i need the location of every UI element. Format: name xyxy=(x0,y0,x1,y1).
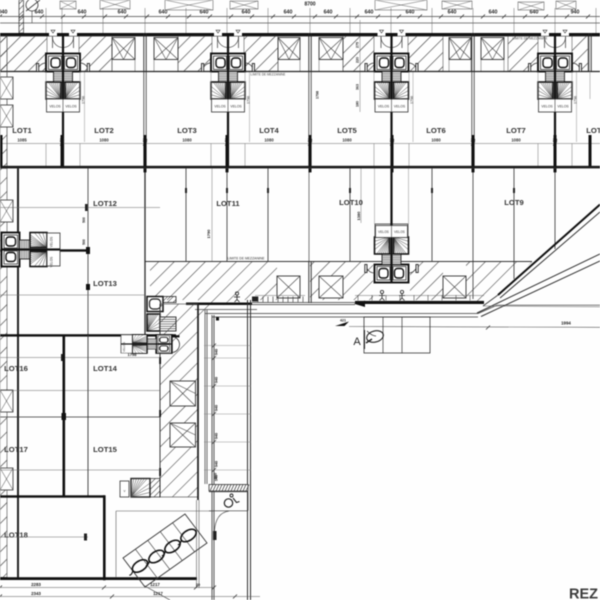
lower core door arcs xyxy=(172,335,180,352)
svg-text:421: 421 xyxy=(340,319,346,323)
lot17 mezzanine line xyxy=(0,469,160,471)
bottom block verticals xyxy=(63,335,89,497)
inner facade windows xyxy=(277,276,466,298)
svg-text:LOT13: LOT13 xyxy=(93,279,117,288)
lot dimension line xyxy=(0,142,600,146)
lot17/18 divider wall xyxy=(0,495,106,580)
A-row boxes xyxy=(364,317,430,353)
svg-text:VELOS: VELOS xyxy=(394,230,405,234)
640 dimension labels xyxy=(0,10,579,16)
core 2 lower wall xyxy=(227,112,229,167)
svg-text:VELOS: VELOS xyxy=(541,105,553,109)
svg-text:LIMITE DE MEZZANINE: LIMITE DE MEZZANINE xyxy=(251,73,286,77)
svg-text:640: 640 xyxy=(242,10,251,16)
svg-text:640: 640 xyxy=(406,10,415,16)
svg-text:LOT7: LOT7 xyxy=(506,126,525,135)
left edge windows mid xyxy=(0,200,13,490)
svg-text:1080: 1080 xyxy=(342,138,352,143)
LOT9 label xyxy=(504,198,523,207)
stair core top 2 xyxy=(202,30,255,112)
svg-text:363: 363 xyxy=(356,84,360,90)
LOT12 label xyxy=(93,199,117,208)
inner facade mid wall xyxy=(309,262,311,303)
svg-text:LOT11: LOT11 xyxy=(216,199,240,208)
svg-text:860: 860 xyxy=(214,534,218,540)
parking shrubs xyxy=(126,527,199,578)
corridor wall dark segments xyxy=(159,357,161,476)
svg-text:LOT4: LOT4 xyxy=(259,126,279,135)
LOT13 label xyxy=(93,279,117,288)
svg-text:1085: 1085 xyxy=(17,138,27,143)
svg-text:1080: 1080 xyxy=(99,138,109,143)
driveway lines xyxy=(195,305,600,317)
main facade wall top xyxy=(0,33,600,36)
svg-text:640: 640 xyxy=(118,10,127,16)
svg-text:940: 940 xyxy=(0,10,7,16)
1798 dim core 2 xyxy=(247,72,251,142)
svg-text:LOT10: LOT10 xyxy=(339,198,363,207)
1798 dim lot5 xyxy=(316,91,320,99)
lot grid verticals top row xyxy=(46,72,590,168)
svg-text:1798: 1798 xyxy=(410,96,414,104)
LOT1 label xyxy=(12,126,32,135)
lot boundary wall bars xyxy=(0,135,592,167)
LOT15 label xyxy=(93,445,117,454)
svg-text:LIMITE DE MEZZANINE: LIMITE DE MEZZANINE xyxy=(227,257,265,261)
stair core top 1 xyxy=(37,30,90,112)
svg-text:640: 640 xyxy=(159,10,168,16)
wall lot14 top xyxy=(0,334,176,336)
svg-text:8700: 8700 xyxy=(304,2,315,8)
svg-text:LOT2: LOT2 xyxy=(94,126,113,135)
LOT3 label xyxy=(177,126,196,135)
svg-text:VELOS: VELOS xyxy=(557,105,569,109)
svg-text:2343: 2343 xyxy=(31,591,41,596)
svg-text:1798: 1798 xyxy=(128,352,138,357)
section arrow 421 xyxy=(335,319,349,327)
svg-text:1798: 1798 xyxy=(574,96,578,104)
500 dim labels lot12 xyxy=(82,217,86,245)
small stair bottom xyxy=(120,479,160,498)
svg-text:LOT18: LOT18 xyxy=(4,531,28,540)
corner stair core xyxy=(147,297,176,332)
1798 dim core 4 xyxy=(574,72,578,142)
LOT10 label xyxy=(339,198,363,207)
top dimension line xyxy=(0,15,600,19)
bottom dim line 2 xyxy=(0,591,260,599)
svg-text:1798: 1798 xyxy=(247,96,251,104)
LOT7 label xyxy=(506,126,525,135)
860 dim labels xyxy=(214,473,218,540)
svg-text:1798: 1798 xyxy=(82,96,86,104)
lot16 mezzanine line xyxy=(0,390,160,392)
core side wall stubs xyxy=(46,144,572,167)
svg-text:940: 940 xyxy=(215,461,219,467)
svg-text:LOT5: LOT5 xyxy=(337,126,357,135)
stair core top 4 xyxy=(529,30,582,112)
left block verticals xyxy=(17,168,88,577)
svg-text:LOT9: LOT9 xyxy=(504,198,523,207)
lot13 mezzanine line xyxy=(0,294,145,296)
bottom wall xyxy=(0,577,197,580)
svg-text:860: 860 xyxy=(214,473,218,479)
svg-text:2283: 2283 xyxy=(31,582,41,587)
svg-text:640: 640 xyxy=(324,10,333,16)
core 4 lower wall xyxy=(554,112,556,167)
core 1 lower wall xyxy=(62,112,64,167)
leaf symbol xyxy=(365,329,384,344)
svg-text:180: 180 xyxy=(356,101,360,107)
ramp edge upper xyxy=(483,205,600,307)
lot12/13 divider wall xyxy=(0,247,90,290)
corridor band windows xyxy=(170,381,196,447)
svg-text:20: 20 xyxy=(196,583,200,587)
facade wall hatch segments xyxy=(0,36,600,71)
svg-text:VELOS: VELOS xyxy=(50,257,54,268)
curb curve xyxy=(213,511,229,540)
svg-text:LOT3: LOT3 xyxy=(177,126,196,135)
svg-text:LOT1: LOT1 xyxy=(12,126,32,135)
left edge hatch mid xyxy=(0,168,7,577)
facade band bottom line xyxy=(0,71,600,73)
LOT6 label xyxy=(426,126,445,135)
svg-text:640: 640 xyxy=(284,10,293,16)
hatched strip left xyxy=(19,0,24,33)
LOT14 label xyxy=(93,364,117,373)
section label A xyxy=(353,330,364,349)
svg-text:640: 640 xyxy=(489,10,498,16)
svg-text:640: 640 xyxy=(530,10,539,16)
svg-text:940: 940 xyxy=(215,349,219,355)
corner figure xyxy=(234,292,240,302)
dense facade band xyxy=(186,295,484,307)
1798 dim core 1 xyxy=(82,72,86,142)
lot11 vertical dim xyxy=(206,168,212,261)
angled parking stalls xyxy=(123,514,207,587)
svg-text:VELOS: VELOS xyxy=(122,342,126,352)
svg-text:640: 640 xyxy=(78,10,87,16)
svg-text:1080: 1080 xyxy=(511,138,521,143)
corridor dim ticks and labels xyxy=(204,344,251,482)
LOT17 label xyxy=(4,445,28,454)
svg-text:640: 640 xyxy=(365,10,374,16)
dimension line 1994 xyxy=(349,321,600,330)
crane circle symbol top-left xyxy=(26,0,40,23)
LOT18 label xyxy=(4,531,28,540)
stair core top 3 xyxy=(365,30,418,112)
lot10 vertical dim xyxy=(356,168,361,223)
svg-text:640: 640 xyxy=(200,10,209,16)
yard lines xyxy=(116,500,214,588)
dim extension verticals xyxy=(46,8,596,33)
grid tick blobs xyxy=(185,188,515,193)
limite de mezzanine label top xyxy=(251,37,548,77)
LOT5 label xyxy=(337,126,357,135)
svg-text:LOT12: LOT12 xyxy=(93,199,117,208)
walkway lines xyxy=(205,310,214,600)
corridor hatched wall band xyxy=(160,304,198,500)
svg-text:1217: 1217 xyxy=(153,591,163,596)
svg-text:VELOS: VELOS xyxy=(214,105,226,109)
core 3 lower wall xyxy=(390,112,392,167)
svg-text:1798: 1798 xyxy=(316,91,320,99)
lot14 dim line xyxy=(0,352,160,361)
svg-text:VELOS: VELOS xyxy=(378,230,389,234)
svg-text:LOT8: LOT8 xyxy=(586,126,600,135)
bottom dim line 1 xyxy=(0,582,216,590)
svg-text:REZ D: REZ D xyxy=(569,587,600,600)
svg-text:1080: 1080 xyxy=(182,138,192,143)
stair core inner (LOT9/10) xyxy=(375,224,409,283)
svg-text:1217: 1217 xyxy=(150,582,160,587)
limite de mezzanine line xyxy=(145,257,532,262)
svg-text:940: 940 xyxy=(215,433,219,439)
8700 label xyxy=(304,2,315,8)
inner core figures xyxy=(379,290,405,300)
svg-text:500: 500 xyxy=(82,239,86,245)
facade windows (crossed) xyxy=(112,38,504,72)
svg-text:1790: 1790 xyxy=(206,229,211,239)
left edge windows xyxy=(0,77,13,127)
svg-text:1994: 1994 xyxy=(561,321,571,326)
title REZ DE text xyxy=(569,587,600,600)
hatched strip xyxy=(209,485,249,492)
svg-text:VELOS: VELOS xyxy=(378,105,390,109)
svg-text:1380: 1380 xyxy=(356,211,361,221)
svg-text:LOT16: LOT16 xyxy=(4,364,28,373)
second main wall xyxy=(0,166,600,169)
outer boundary double line xyxy=(248,300,251,600)
facade mid walls xyxy=(144,33,591,72)
1798 dim core 3 xyxy=(410,72,414,142)
svg-text:VELOS: VELOS xyxy=(65,105,77,109)
svg-text:V: V xyxy=(123,489,125,493)
parking lane edge extension xyxy=(143,585,170,600)
svg-text:1080: 1080 xyxy=(431,138,441,143)
LOT16 label xyxy=(4,364,28,373)
left edge wall top row xyxy=(0,36,7,167)
svg-text:500: 500 xyxy=(82,217,86,223)
top edge vent symbols xyxy=(60,0,576,10)
svg-text:LOT15: LOT15 xyxy=(93,445,117,454)
svg-text:640: 640 xyxy=(35,10,44,16)
second row grid verticals xyxy=(144,168,557,335)
ramp edge lower xyxy=(477,254,600,317)
vertical dim chain x360 xyxy=(356,20,361,112)
svg-text:1080: 1080 xyxy=(264,138,274,143)
svg-text:940: 940 xyxy=(215,405,219,411)
svg-text:VELOS: VELOS xyxy=(50,237,54,248)
svg-text:640: 640 xyxy=(448,10,457,16)
LOT11 label xyxy=(216,199,240,208)
LOT4 label xyxy=(259,126,279,135)
svg-text:LOT6: LOT6 xyxy=(426,126,445,135)
LOT8 label xyxy=(586,126,600,135)
wheelchair parking xyxy=(209,492,248,511)
LOT2 label xyxy=(94,126,113,135)
svg-text:VELOS: VELOS xyxy=(49,105,61,109)
corner hatch wedge xyxy=(198,300,230,326)
svg-text:940: 940 xyxy=(571,10,580,16)
inner core upper wall xyxy=(375,168,409,224)
svg-text:VELOS: VELOS xyxy=(394,105,406,109)
lot12 dim line xyxy=(0,204,160,211)
svg-text:A: A xyxy=(353,336,361,348)
svg-text:LOT17: LOT17 xyxy=(4,445,28,454)
top secondary line xyxy=(0,22,600,24)
lower-left stair core xyxy=(121,335,172,354)
svg-text:940: 940 xyxy=(215,377,219,383)
lot16/17 divider xyxy=(0,413,160,420)
svg-text:LOT14: LOT14 xyxy=(93,364,117,373)
svg-text:VELOS: VELOS xyxy=(230,105,242,109)
lot18 mid line xyxy=(0,534,88,541)
inner facade hatch xyxy=(150,262,532,302)
lot width dimension texts xyxy=(17,138,558,143)
left edge stair core xyxy=(2,233,61,267)
svg-text:LIMITE DE MEZZANINE: LIMITE DE MEZZANINE xyxy=(513,37,548,41)
